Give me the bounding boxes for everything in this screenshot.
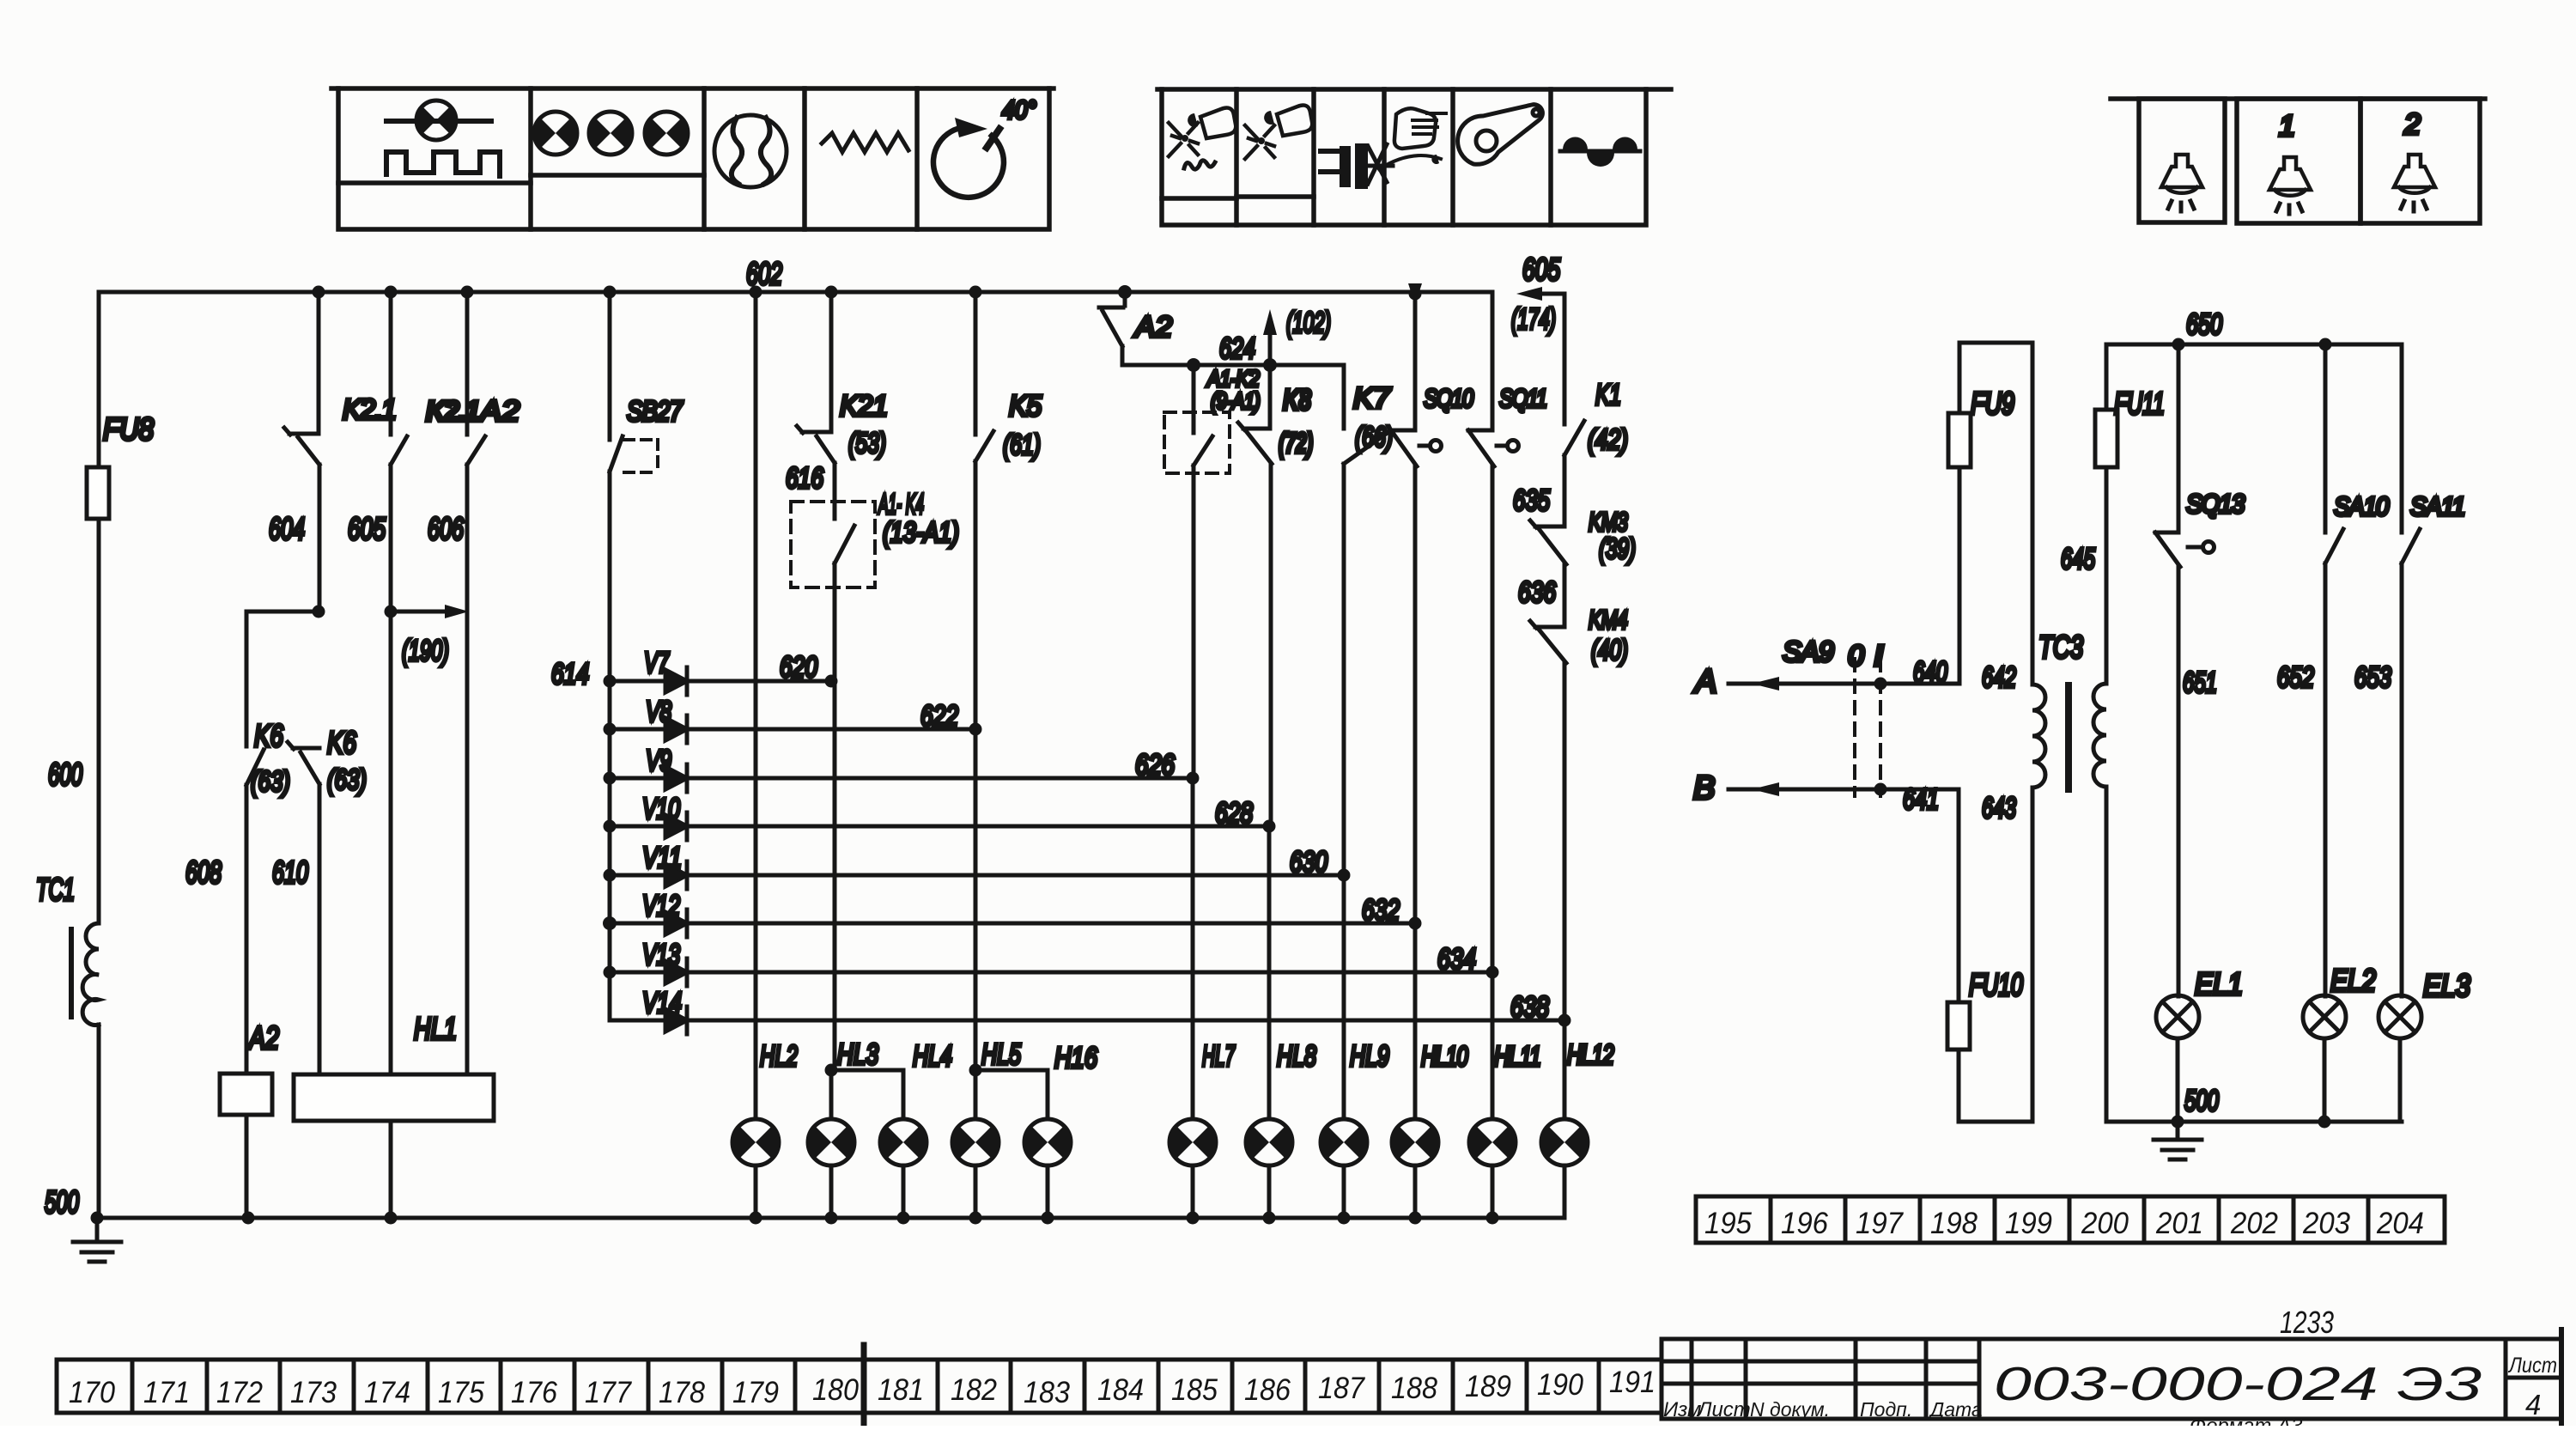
svg-text:0: 0 xyxy=(1848,640,1864,672)
diode V11 + wire 630 xyxy=(610,861,1344,889)
svg-text:636: 636 xyxy=(1518,576,1556,609)
svg-text:HL11: HL11 xyxy=(1494,1041,1540,1072)
svg-text:KM4: KM4 xyxy=(1589,605,1628,635)
svg-text:191: 191 xyxy=(1609,1366,1656,1399)
icon: circular arrow 40deg (cell 5) xyxy=(933,118,1004,198)
svg-text:622: 622 xyxy=(920,700,958,733)
svg-text:175: 175 xyxy=(438,1376,484,1409)
svg-text:195: 195 xyxy=(1704,1207,1752,1240)
node 650/SQ13 xyxy=(2172,338,2185,351)
svg-text:K2.1: K2.1 xyxy=(426,395,479,427)
svg-text:203: 203 xyxy=(2302,1207,2350,1240)
node A2/500 xyxy=(242,1212,255,1225)
icon: lamp cone (box 1) xyxy=(2161,155,2202,211)
svg-text:A1- K4: A1- K4 xyxy=(878,488,924,520)
wire 653 xyxy=(2400,563,2404,996)
icon: lamp bulb with filament (cell 3) xyxy=(714,115,787,187)
svg-text:HL9: HL9 xyxy=(1350,1040,1389,1073)
wire bus 500 (bottom) xyxy=(97,1216,1564,1220)
svg-text:SA9: SA9 xyxy=(1783,636,1834,667)
svg-text:188: 188 xyxy=(1391,1372,1437,1405)
svg-text:500: 500 xyxy=(45,1184,79,1220)
relay coil A2 xyxy=(220,1074,272,1115)
svg-text:500: 500 xyxy=(2184,1085,2219,1117)
svg-text:198: 198 xyxy=(1930,1207,1978,1240)
svg-text:2: 2 xyxy=(2403,108,2421,141)
svg-text:V14: V14 xyxy=(642,987,682,1019)
icon: lamp cone 2 (box 3) xyxy=(2394,155,2435,211)
wire K5 to HL5 xyxy=(974,461,978,1070)
svg-text:EL1: EL1 xyxy=(2195,966,2243,1001)
svg-text:K21: K21 xyxy=(840,390,888,423)
svg-text:SA11: SA11 xyxy=(2410,491,2464,521)
fuse FU8 xyxy=(87,467,109,519)
svg-text:EL3: EL3 xyxy=(2423,968,2470,1003)
lamp HL4 xyxy=(880,1119,927,1165)
ground (right) xyxy=(2154,1122,2202,1159)
node V13 xyxy=(604,966,617,979)
contact KM3 (NC) xyxy=(1530,520,1566,564)
svg-text:Лист: Лист xyxy=(1696,1398,1751,1421)
svg-text:SQ13: SQ13 xyxy=(2186,489,2245,519)
fuse FU11 xyxy=(2095,410,2117,467)
svg-text:(174): (174) xyxy=(1511,303,1556,336)
wire 605 from (174) xyxy=(1516,287,1564,301)
svg-text:605: 605 xyxy=(348,511,386,546)
node 602/605 xyxy=(385,286,398,299)
wire 616 xyxy=(833,463,837,519)
svg-text:FU9: FU9 xyxy=(1971,386,2014,421)
svg-text:EL2: EL2 xyxy=(2330,963,2376,998)
lamp EL1 xyxy=(2156,995,2199,1038)
svg-text:H16: H16 xyxy=(1054,1042,1097,1074)
transformer TC3 core xyxy=(2065,685,2072,789)
svg-text:177: 177 xyxy=(585,1376,632,1409)
contact K2.1 (NO, wire 605) xyxy=(391,292,407,465)
wire SQ10 to HL10 xyxy=(1413,466,1418,1119)
svg-text:(63): (63) xyxy=(327,764,367,795)
diode V7 + wire 620 xyxy=(610,667,831,695)
svg-text:602: 602 xyxy=(746,256,782,291)
svg-text:642: 642 xyxy=(1982,661,2016,694)
svg-text:(13-A1): (13-A1) xyxy=(883,516,959,548)
node V10 xyxy=(604,820,617,833)
svg-text:(61): (61) xyxy=(1003,429,1041,460)
transformer TC1 winding xyxy=(71,923,99,1025)
svg-text:610: 610 xyxy=(272,855,308,890)
wire 635 xyxy=(1563,455,1567,526)
svg-text:HL5: HL5 xyxy=(981,1038,1021,1071)
svg-text:176: 176 xyxy=(511,1376,557,1409)
contact K8 (NC) xyxy=(1238,365,1272,464)
icon: lamp with rack (cell 1) xyxy=(386,100,500,176)
node 650/SA10 xyxy=(2319,338,2332,351)
svg-text:FU10: FU10 xyxy=(1969,967,2023,1002)
svg-text:180: 180 xyxy=(812,1373,859,1407)
svg-text:186: 186 xyxy=(1244,1373,1291,1407)
contact KM4 (NC) xyxy=(1530,621,1566,663)
wire bus 650 xyxy=(2106,343,2402,347)
svg-text:635: 635 xyxy=(1513,484,1550,517)
title block texts xyxy=(1663,1305,2557,1421)
node 602/604 xyxy=(313,286,325,299)
wire A1-K2 to HL7 xyxy=(1193,466,1194,1119)
svg-text:182: 182 xyxy=(951,1373,997,1407)
svg-text:626: 626 xyxy=(1135,749,1175,782)
svg-text:Изм: Изм xyxy=(1663,1398,1702,1421)
node 604/608 junction xyxy=(246,605,325,618)
lamp HL8 xyxy=(1246,1119,1292,1165)
svg-text:172: 172 xyxy=(216,1376,263,1409)
wire 606 xyxy=(465,465,470,1074)
svg-text:204: 204 xyxy=(2376,1207,2424,1240)
svg-text:(66): (66) xyxy=(1355,421,1393,453)
svg-text:616: 616 xyxy=(786,462,823,495)
svg-text:A2: A2 xyxy=(478,395,519,428)
node 602/HL2 xyxy=(750,286,762,299)
wire K21 to HL3 xyxy=(833,563,837,1070)
wire 605 xyxy=(389,465,393,1074)
diode V14 + wire 638 xyxy=(610,1007,1564,1034)
svg-text:K5: K5 xyxy=(1009,390,1042,423)
svg-text:202: 202 xyxy=(2230,1207,2278,1240)
icon: plug and hand (cells 3-4) xyxy=(1321,108,1446,189)
svg-text:HL12: HL12 xyxy=(1567,1039,1614,1070)
lamp EL3 xyxy=(2379,995,2421,1038)
node 500/EL1 xyxy=(2172,1116,2184,1129)
wire B input xyxy=(1728,782,1959,796)
svg-text:Формат А3: Формат А3 xyxy=(2190,1415,2303,1426)
node HL5/HL6 jog xyxy=(969,1064,1048,1120)
svg-text:V11: V11 xyxy=(642,842,682,874)
svg-text:K1: K1 xyxy=(1595,379,1621,411)
svg-text:201: 201 xyxy=(2155,1207,2203,1240)
arrow to (190) xyxy=(385,605,470,618)
svg-text:190: 190 xyxy=(1537,1368,1583,1402)
svg-text:4: 4 xyxy=(2525,1389,2541,1421)
node HL1/500 xyxy=(385,1212,398,1225)
node V11 xyxy=(604,869,617,882)
title block frame xyxy=(1662,1330,2561,1426)
wire K7 to HL9 xyxy=(1342,464,1346,1119)
svg-text:Лист: Лист xyxy=(2507,1354,2557,1378)
node 602/K21 xyxy=(825,286,838,299)
icon: coolant spray with spring (cell 1) xyxy=(1169,108,1236,170)
lamp HL7 xyxy=(1170,1119,1216,1165)
lamp HL9 xyxy=(1321,1119,1367,1165)
svg-text:(39): (39) xyxy=(1599,532,1636,564)
svg-text:605: 605 xyxy=(1522,252,1561,287)
svg-text:1233: 1233 xyxy=(2280,1305,2334,1340)
svg-text:(53): (53) xyxy=(848,427,886,459)
ground (bottom left) xyxy=(73,1212,121,1263)
svg-text:641: 641 xyxy=(1903,783,1939,816)
diode V10 + wire 628 xyxy=(610,812,1269,840)
svg-text:600: 600 xyxy=(48,757,82,792)
svg-text:K6: K6 xyxy=(254,718,284,753)
lamp HL5 xyxy=(952,1119,999,1165)
svg-text:B: B xyxy=(1693,770,1715,806)
svg-text:(102): (102) xyxy=(1286,307,1331,339)
contact A2 (NO, wire 606) xyxy=(467,292,485,465)
icon: coolant spray (cell 2) xyxy=(1245,106,1312,159)
contact K6 (NO, wire 608) xyxy=(246,612,264,785)
wire K8 to HL8 xyxy=(1269,464,1271,1119)
svg-text:V10: V10 xyxy=(642,793,680,825)
fuse FU9 xyxy=(1948,343,2032,684)
indicator block HL1 xyxy=(294,1074,494,1121)
svg-text:624: 624 xyxy=(1219,332,1255,365)
svg-text:638: 638 xyxy=(1510,991,1549,1024)
svg-text:A2: A2 xyxy=(1133,311,1172,344)
svg-text:628: 628 xyxy=(1215,797,1253,830)
switch SA10 xyxy=(2325,344,2343,563)
wire 608 xyxy=(245,785,249,1074)
svg-text:604: 604 xyxy=(269,511,305,546)
switch SA9 (dashed link, positions 0 I) xyxy=(1855,659,1887,796)
svg-text:HL1: HL1 xyxy=(414,1011,457,1046)
lamp EL2 xyxy=(2303,995,2346,1038)
svg-text:179: 179 xyxy=(732,1376,779,1409)
node 500/EL2 xyxy=(2318,1116,2331,1129)
node 602/SB27 xyxy=(604,286,617,299)
limit switch SQ11 xyxy=(1468,292,1519,466)
node V7 xyxy=(604,675,617,688)
sheet number strip 170-191 xyxy=(57,1360,1662,1413)
icon: belt drive (cell 5) xyxy=(1458,105,1543,165)
contact K2.1 (NC, wire 604) xyxy=(284,292,319,465)
node 624/(102) xyxy=(1263,358,1277,372)
icon panel group 3 frame (lamps 1,2) xyxy=(2111,99,2485,223)
svg-text:K8: K8 xyxy=(1283,384,1311,417)
svg-text:620: 620 xyxy=(780,651,817,684)
svg-text:K6: K6 xyxy=(327,725,357,760)
svg-text:V12: V12 xyxy=(642,890,680,922)
node V12 xyxy=(603,916,617,930)
svg-text:V7: V7 xyxy=(644,647,670,679)
svg-text:Подп.: Подп. xyxy=(1860,1398,1912,1421)
svg-text:189: 189 xyxy=(1465,1370,1511,1403)
svg-text:SQ11: SQ11 xyxy=(1499,385,1546,413)
svg-text:181: 181 xyxy=(878,1373,924,1407)
svg-text:FU11: FU11 xyxy=(2114,386,2165,421)
svg-text:174: 174 xyxy=(364,1376,410,1409)
wire A input xyxy=(1728,677,1959,691)
node V9 xyxy=(604,772,617,785)
svg-text:Дата: Дата xyxy=(1928,1398,1983,1421)
diode V9 + wire 626 xyxy=(610,764,1193,792)
svg-text:183: 183 xyxy=(1024,1376,1070,1409)
svg-text:(63): (63) xyxy=(251,765,290,797)
svg-text:187: 187 xyxy=(1318,1372,1365,1405)
wire bus 602 (top) xyxy=(99,290,1490,295)
svg-text:199: 199 xyxy=(2005,1207,2052,1240)
wire K1 chain to HL12 xyxy=(1563,663,1567,1119)
contact A2 (NC) xyxy=(1099,292,1125,346)
svg-text:HL3: HL3 xyxy=(837,1038,878,1071)
svg-text:170: 170 xyxy=(69,1376,115,1409)
limit switch SQ10 xyxy=(1391,292,1442,466)
svg-text:SQ10: SQ10 xyxy=(1424,385,1473,413)
svg-text:HL2: HL2 xyxy=(760,1040,798,1073)
wire HL2 column xyxy=(754,292,758,1119)
svg-text:614: 614 xyxy=(551,658,589,691)
node 602/A2 xyxy=(1118,285,1132,299)
arrow to (102) xyxy=(1263,309,1277,365)
lamp HL6 xyxy=(1024,1119,1071,1165)
svg-text:V13: V13 xyxy=(642,939,680,971)
icon panel group 2 frame xyxy=(1157,89,1671,225)
svg-text:651: 651 xyxy=(2183,666,2217,699)
svg-text:606: 606 xyxy=(428,511,465,546)
svg-text:(40): (40) xyxy=(1591,634,1628,666)
svg-text:I: I xyxy=(1874,640,1884,672)
transformer TC3 secondary (wire 645) xyxy=(2093,344,2106,1122)
wire 600 (left vertical) xyxy=(97,292,101,1218)
wire 651 xyxy=(2177,567,2181,996)
svg-text:SB27: SB27 xyxy=(627,395,683,427)
wire 604 xyxy=(318,465,322,612)
svg-text:632: 632 xyxy=(1362,894,1400,927)
svg-text:FU8: FU8 xyxy=(103,411,154,447)
svg-text:TC1: TC1 xyxy=(36,872,75,907)
svg-text:171: 171 xyxy=(143,1376,190,1409)
svg-text:40°: 40° xyxy=(1002,96,1036,125)
svg-text:V9: V9 xyxy=(646,745,671,777)
node 602/606 xyxy=(461,286,474,299)
diode V13 + wire 634 xyxy=(610,958,1492,986)
contact K7 (NO) xyxy=(1344,365,1391,464)
svg-text:TC3: TC3 xyxy=(2038,630,2083,665)
diode V8 + wire 622 xyxy=(610,715,975,743)
svg-text:HL10: HL10 xyxy=(1421,1041,1468,1072)
node V8 xyxy=(604,723,617,736)
node 602/K5 xyxy=(969,286,982,299)
svg-text:HL8: HL8 xyxy=(1277,1040,1316,1073)
terminal strip 195-204 xyxy=(1696,1196,2445,1243)
pushbutton SB27 xyxy=(610,292,658,472)
wire 636 xyxy=(1563,564,1567,627)
contact A1-K2 in dashed box xyxy=(1164,365,1230,473)
svg-text:645: 645 xyxy=(2061,543,2095,575)
wire 614 (diode anode bus) xyxy=(608,472,612,1020)
lamp HL3 xyxy=(808,1119,854,1165)
node 624/A1-K2 xyxy=(1187,358,1200,372)
svg-text:630: 630 xyxy=(1290,846,1327,879)
icon: clutch halves (cell 6) xyxy=(1560,137,1640,167)
wire 624 xyxy=(1122,346,1344,365)
icon: lamp cone 1 (box 2) xyxy=(2269,157,2311,214)
wire 610 xyxy=(318,784,322,1074)
svg-text:197: 197 xyxy=(1856,1207,1904,1240)
svg-text:634: 634 xyxy=(1437,943,1476,976)
svg-text:(42): (42) xyxy=(1588,423,1628,455)
svg-text:003-000-024 Э3: 003-000-024 Э3 xyxy=(1994,1357,2482,1410)
icon: resistance zigzag (cell 4) xyxy=(822,133,908,152)
diode V12 + wire 632 xyxy=(610,910,1415,937)
lamp HL11 xyxy=(1469,1119,1516,1165)
node HL3/HL4 jog xyxy=(825,1064,904,1120)
wire 652 xyxy=(2324,563,2328,996)
contact A1-K4 in dashed box xyxy=(791,502,875,587)
svg-text:184: 184 xyxy=(1097,1373,1144,1407)
svg-text:196: 196 xyxy=(1781,1207,1828,1240)
svg-text:SA10: SA10 xyxy=(2334,491,2389,521)
svg-text:1: 1 xyxy=(2279,110,2295,143)
node 602 end arrow xyxy=(1408,283,1422,305)
svg-text:(9-A1): (9-A1) xyxy=(1211,388,1260,414)
limit switch SQ13 xyxy=(2155,344,2215,567)
svg-text:653: 653 xyxy=(2354,661,2391,694)
fuse FU10 xyxy=(1947,789,2032,1122)
svg-text:650: 650 xyxy=(2186,308,2222,341)
contact K5 (NO) xyxy=(975,292,993,461)
transformer TC3 primary (wires 642/643) xyxy=(2032,343,2045,1122)
svg-text:V8: V8 xyxy=(646,696,671,728)
lamp HL12 xyxy=(1541,1119,1588,1165)
icon: three lamps (cell 2) xyxy=(534,112,688,155)
svg-text:643: 643 xyxy=(1982,792,2016,825)
svg-text:A2: A2 xyxy=(247,1020,279,1056)
contact K6 (NC, wire 610) xyxy=(288,742,319,784)
lamp HL10 xyxy=(1392,1119,1438,1165)
svg-text:K2.1: K2.1 xyxy=(343,393,396,425)
wire bus 500 right xyxy=(2106,1120,2402,1124)
svg-text:178: 178 xyxy=(659,1376,705,1409)
svg-text:173: 173 xyxy=(290,1376,337,1409)
svg-text:N докум.: N докум. xyxy=(1750,1398,1830,1421)
svg-text:185: 185 xyxy=(1171,1373,1218,1407)
svg-text:(190): (190) xyxy=(402,635,449,667)
svg-text:200: 200 xyxy=(2081,1207,2129,1240)
svg-text:A: A xyxy=(1693,664,1716,700)
svg-text:(72): (72) xyxy=(1279,427,1313,459)
lamp HL2 xyxy=(732,1119,779,1165)
contact K1 (NO) xyxy=(1564,294,1584,455)
svg-text:608: 608 xyxy=(185,855,222,890)
wire A2 to bus xyxy=(245,1115,249,1218)
contact K21 (NC) xyxy=(797,292,835,463)
switch SA11 xyxy=(2402,344,2420,563)
svg-text:K7: K7 xyxy=(1353,382,1391,415)
svg-text:HL4: HL4 xyxy=(913,1040,952,1073)
svg-text:HL7: HL7 xyxy=(1202,1040,1236,1073)
svg-text:652: 652 xyxy=(2277,661,2314,694)
wire HL1 to bus xyxy=(389,1121,393,1218)
wire SQ11 to HL11 xyxy=(1491,466,1495,1119)
fold mark line xyxy=(861,1345,867,1426)
icon panel group 1 frame xyxy=(331,88,1054,229)
svg-text:640: 640 xyxy=(1913,656,1947,689)
